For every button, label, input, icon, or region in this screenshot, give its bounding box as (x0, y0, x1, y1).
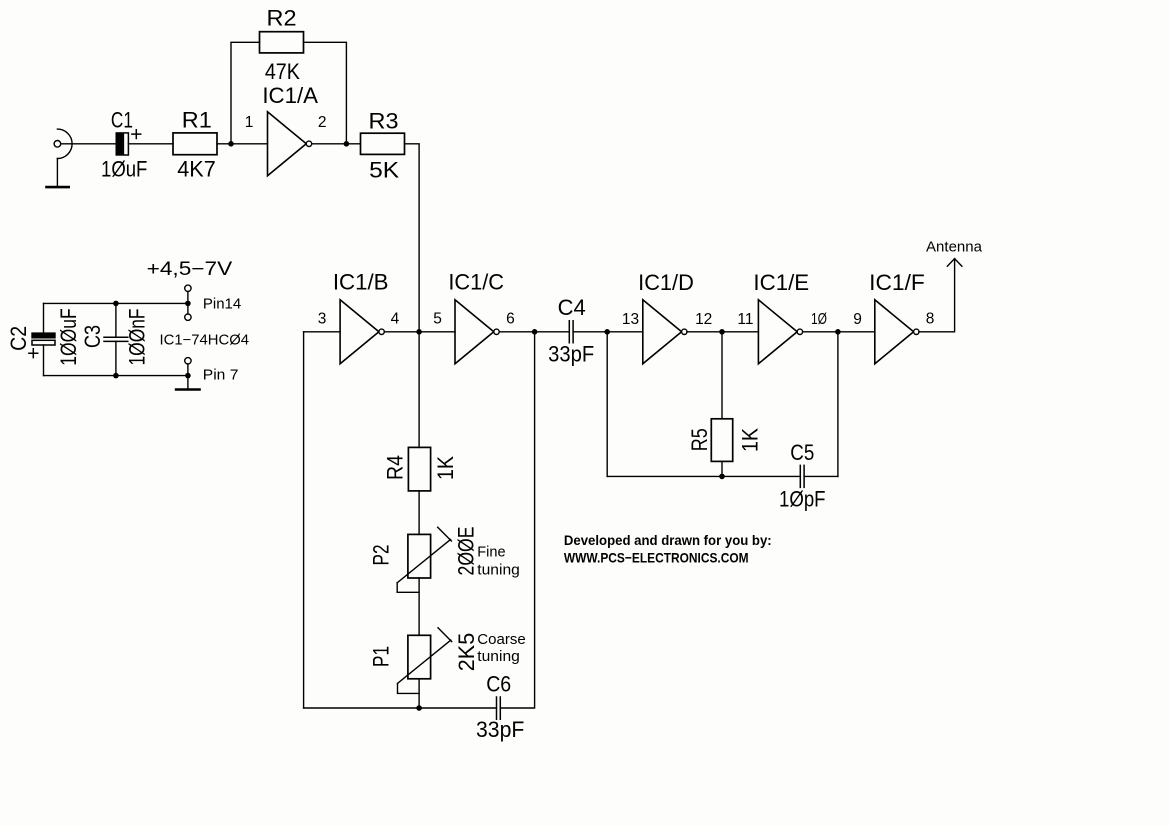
svg-text:5: 5 (433, 311, 442, 328)
svg-text:C2: C2 (6, 326, 31, 351)
wire R4 to P2 (418, 491, 420, 535)
svg-text:tuning: tuning (477, 649, 520, 665)
wire feedback right vertical (304, 42, 347, 144)
wire E feedback right vertical (837, 332, 839, 477)
node junction at pin1 (228, 141, 234, 147)
svg-text:IC1−74HCØ4: IC1−74HCØ4 (160, 333, 250, 349)
resistor R2 47K (260, 32, 304, 53)
wire D feedback left vertical (606, 332, 608, 477)
antenna arrow (947, 259, 962, 267)
svg-text:5K: 5K (369, 158, 399, 183)
resistor R3 5K (361, 133, 405, 154)
svg-text:P1: P1 (369, 646, 394, 667)
potentiometer P2 200E (397, 527, 451, 592)
terminal Pin7 (185, 358, 191, 390)
wire R1 to U1A input (217, 143, 268, 145)
node junction pin4 (416, 329, 422, 335)
node junction R5 bottom (719, 474, 725, 480)
capacitor C6 33pF (497, 697, 501, 719)
capacitor C3 100nF (104, 303, 128, 375)
svg-text:12: 12 (695, 311, 712, 328)
ground (pin 7) (176, 388, 199, 391)
svg-text:C4: C4 (558, 295, 586, 320)
svg-text:Pin 7: Pin 7 (203, 368, 239, 384)
wire R3 to oscillator column (405, 144, 420, 448)
svg-text:Coarse: Coarse (477, 632, 525, 648)
svg-text:IC1/B: IC1/B (333, 269, 389, 294)
svg-text:IC1/A: IC1/A (262, 83, 318, 108)
wire P2 to P1 (418, 578, 420, 635)
node junction bottom loop (416, 705, 422, 711)
wire chain left feedback vertical (303, 332, 305, 708)
svg-text:Developed and drawn for you by: Developed and drawn for you by: (564, 532, 772, 548)
node junction pin10 (835, 329, 841, 335)
svg-text:C6: C6 (486, 672, 511, 697)
svg-text:2: 2 (318, 114, 327, 131)
svg-text:tuning: tuning (477, 562, 520, 578)
svg-text:6: 6 (506, 311, 515, 328)
svg-text:Fine: Fine (477, 545, 505, 561)
svg-text:11: 11 (737, 311, 753, 328)
wire IC1/D out to IC1/E (687, 331, 758, 333)
audio input jack J1 (54, 129, 72, 158)
svg-text:13: 13 (622, 311, 639, 328)
power rail bottom wire (44, 375, 188, 377)
svg-text:8: 8 (926, 311, 935, 328)
node junction pin12 (719, 329, 725, 335)
wire C4 to IC1/D (573, 331, 643, 333)
capacitor C5 10pF (800, 465, 804, 487)
inverter IC1/E (758, 300, 802, 364)
resistor R4 1K (408, 447, 430, 491)
svg-text:33pF: 33pF (476, 717, 524, 742)
wire IC1/A out to R3 (312, 143, 361, 145)
wire feedback left vertical (231, 42, 260, 144)
wire IC1/E out to IC1/F (803, 331, 875, 333)
svg-text:IC1/D: IC1/D (638, 270, 694, 295)
svg-text:3: 3 (318, 311, 327, 328)
wire P1 to bottom loop (418, 679, 420, 708)
capacitor C1 10uF polarized (116, 130, 141, 155)
inverter IC1/C (455, 300, 499, 364)
svg-text:P2: P2 (369, 545, 394, 566)
wire D-E feedback bottom (607, 475, 800, 477)
wire down to R5 (721, 332, 723, 419)
capacitor C2 100uF polarized (29, 303, 55, 375)
node junction C3 bottom (113, 373, 119, 379)
svg-text:WWW.PCS−ELECTRONICS.COM: WWW.PCS−ELECTRONICS.COM (564, 550, 749, 566)
wire IC1/F out to antenna (919, 259, 955, 332)
terminal Pin14 (185, 285, 191, 320)
svg-text:9: 9 (853, 311, 862, 328)
svg-text:1K: 1K (433, 456, 458, 480)
svg-text:1Ø: 1Ø (811, 311, 827, 328)
svg-text:R2: R2 (267, 6, 297, 31)
svg-text:R4: R4 (382, 455, 407, 480)
wire IC1/B out to IC1/C (384, 331, 455, 333)
svg-text:2ØØE: 2ØØE (453, 527, 478, 576)
svg-text:C5: C5 (790, 440, 814, 465)
inverter IC1/F (875, 300, 919, 364)
svg-text:+4,5−7V: +4,5−7V (147, 259, 233, 280)
svg-text:47K: 47K (265, 59, 300, 84)
svg-text:IC1/E: IC1/E (753, 270, 809, 295)
wire bottom loop left (304, 707, 497, 709)
svg-text:IC1/C: IC1/C (448, 269, 504, 294)
wire into IC1/B (304, 331, 341, 333)
resistor R1 4K7 (173, 133, 217, 155)
svg-text:Antenna: Antenna (926, 239, 983, 255)
svg-text:1ØpF: 1ØpF (779, 487, 826, 512)
svg-text:1: 1 (245, 114, 254, 131)
wire C5 to right vertical (804, 475, 838, 477)
svg-text:C3: C3 (80, 325, 105, 348)
inverter IC1/B (340, 300, 384, 364)
power rail top wire (44, 302, 188, 304)
svg-text:IC1/F: IC1/F (869, 270, 925, 295)
node junction pin6 (532, 329, 538, 335)
svg-text:1K: 1K (737, 428, 762, 452)
wire R5 to bottom loop (721, 461, 723, 476)
svg-text:1ØuF: 1ØuF (101, 156, 147, 181)
capacitor C4 33pF (569, 321, 573, 343)
wire C1 to R1 (128, 143, 173, 145)
ground (input jack) (47, 159, 69, 188)
node junction at pin2 (344, 141, 350, 147)
svg-text:1ØØnF: 1ØØnF (125, 309, 150, 366)
inverter IC1/D (643, 300, 687, 364)
svg-text:Pin14: Pin14 (203, 296, 241, 312)
svg-text:R1: R1 (182, 107, 212, 132)
svg-text:1ØØuF: 1ØØuF (56, 308, 81, 365)
potentiometer P1 2K5 (398, 628, 452, 694)
resistor R5 1K (711, 419, 732, 462)
svg-text:2K5: 2K5 (454, 633, 479, 671)
svg-text:4: 4 (391, 311, 400, 328)
svg-text:C1: C1 (111, 107, 133, 132)
node junction pin13 (604, 329, 610, 335)
op-amp inverter IC1/A (268, 112, 312, 176)
svg-text:R5: R5 (687, 428, 712, 451)
wire bottom loop right (500, 332, 534, 708)
svg-text:4K7: 4K7 (177, 157, 216, 182)
svg-text:33pF: 33pF (548, 342, 594, 367)
node junction C3 top (113, 301, 119, 307)
wire jack to C1 (61, 143, 116, 145)
svg-text:R3: R3 (369, 109, 399, 134)
wire IC1/C out to C4 (499, 331, 569, 333)
